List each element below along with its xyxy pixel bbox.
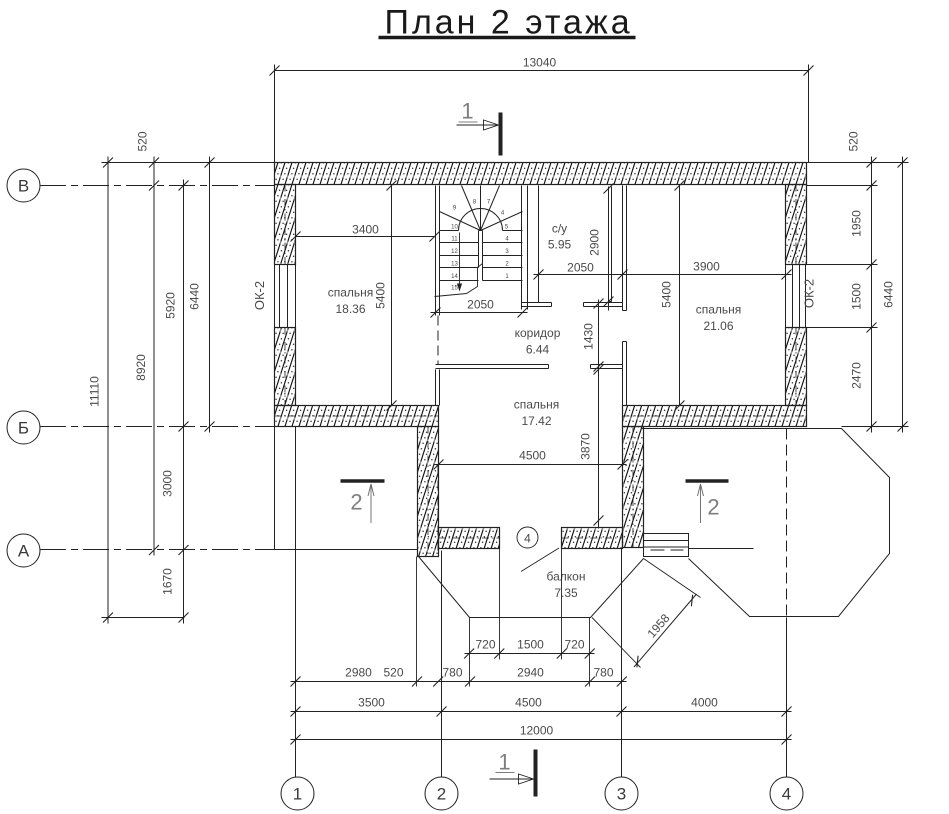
svg-text:780: 780 — [442, 666, 462, 680]
svg-text:13040: 13040 — [523, 56, 557, 70]
svg-text:спальня: спальня — [328, 286, 374, 300]
svg-text:2: 2 — [707, 495, 719, 520]
svg-text:3900: 3900 — [693, 260, 720, 274]
svg-text:2940: 2940 — [517, 666, 544, 680]
svg-text:17.42: 17.42 — [521, 414, 551, 428]
svg-text:2: 2 — [350, 490, 362, 515]
svg-text:с/у: с/у — [552, 222, 567, 236]
svg-text:ОК-2: ОК-2 — [252, 281, 267, 310]
svg-text:1500: 1500 — [850, 283, 864, 310]
svg-text:5400: 5400 — [660, 281, 674, 308]
svg-text:1670: 1670 — [161, 568, 175, 595]
svg-text:2470: 2470 — [850, 362, 864, 389]
svg-text:2050: 2050 — [467, 298, 494, 312]
svg-text:21.06: 21.06 — [703, 319, 733, 333]
svg-text:балкон: балкон — [547, 570, 586, 584]
svg-text:1: 1 — [498, 750, 510, 775]
svg-text:720: 720 — [475, 638, 495, 652]
svg-text:2050: 2050 — [567, 261, 594, 275]
svg-text:спальня: спальня — [696, 303, 742, 317]
svg-text:5920: 5920 — [164, 292, 178, 319]
svg-text:6440: 6440 — [188, 283, 202, 310]
svg-text:3870: 3870 — [579, 433, 593, 460]
svg-text:1: 1 — [293, 785, 302, 804]
svg-text:18.36: 18.36 — [335, 302, 365, 316]
svg-text:8920: 8920 — [134, 354, 148, 381]
svg-text:7.35: 7.35 — [554, 586, 578, 600]
svg-text:В: В — [18, 177, 29, 196]
svg-text:3400: 3400 — [352, 223, 379, 237]
svg-text:720: 720 — [564, 638, 584, 652]
svg-text:А: А — [18, 542, 30, 561]
svg-text:1: 1 — [461, 99, 473, 124]
svg-text:спальня: спальня — [514, 398, 560, 412]
svg-text:4: 4 — [524, 532, 531, 546]
svg-text:ОК-2: ОК-2 — [802, 279, 817, 308]
svg-text:520: 520 — [136, 131, 150, 151]
svg-text:12: 12 — [451, 249, 458, 255]
svg-text:14: 14 — [451, 274, 458, 280]
svg-text:780: 780 — [593, 666, 613, 680]
svg-text:5.95: 5.95 — [548, 238, 572, 252]
svg-text:4500: 4500 — [519, 449, 546, 463]
svg-text:6440: 6440 — [882, 281, 896, 308]
svg-text:11110: 11110 — [88, 376, 102, 407]
svg-text:2900: 2900 — [588, 229, 602, 256]
svg-text:4: 4 — [782, 785, 791, 804]
svg-text:11: 11 — [451, 237, 458, 243]
svg-text:6.44: 6.44 — [526, 343, 550, 357]
svg-text:5400: 5400 — [374, 282, 388, 309]
svg-text:1500: 1500 — [517, 638, 544, 652]
svg-text:13: 13 — [451, 262, 458, 268]
svg-text:1950: 1950 — [850, 210, 864, 237]
svg-text:520: 520 — [847, 131, 861, 151]
svg-text:коридор: коридор — [515, 326, 561, 340]
svg-text:520: 520 — [383, 666, 403, 680]
svg-text:1430: 1430 — [582, 323, 596, 350]
svg-text:15: 15 — [451, 286, 458, 292]
svg-text:2980: 2980 — [345, 666, 372, 680]
svg-text:3000: 3000 — [161, 470, 175, 497]
svg-text:4000: 4000 — [691, 696, 718, 710]
svg-text:12000: 12000 — [520, 724, 554, 738]
svg-text:10: 10 — [451, 225, 458, 231]
svg-text:3500: 3500 — [358, 696, 385, 710]
svg-text:3: 3 — [617, 785, 626, 804]
svg-text:Б: Б — [18, 419, 29, 438]
svg-text:2: 2 — [437, 785, 446, 804]
svg-text:4500: 4500 — [515, 696, 542, 710]
